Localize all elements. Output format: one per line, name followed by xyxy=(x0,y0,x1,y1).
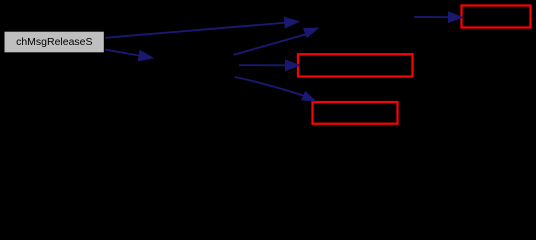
wire edge A: chMsgReleaseS to hidden top node xyxy=(105,17,299,37)
node chMsgReleaseS (caller, grey) xyxy=(5,32,104,53)
wire edge C: hidden middle node to hidden top node xyxy=(234,28,319,55)
node red box 3 (bottom, truncated callee) xyxy=(313,102,398,124)
svg-text:chMsgReleaseS: chMsgReleaseS xyxy=(16,36,92,48)
node red box 1 (top right, truncated callee) xyxy=(462,6,531,28)
wire edge D: hidden middle node to red box 2 xyxy=(239,60,300,71)
wire edge B: chMsgReleaseS to hidden middle node xyxy=(105,50,153,61)
wire edge F: hidden top node to red box 1 xyxy=(414,12,463,23)
wire edge E: hidden middle node to red box 3 xyxy=(235,77,315,101)
node red box 2 (middle, truncated callee) xyxy=(298,54,413,76)
